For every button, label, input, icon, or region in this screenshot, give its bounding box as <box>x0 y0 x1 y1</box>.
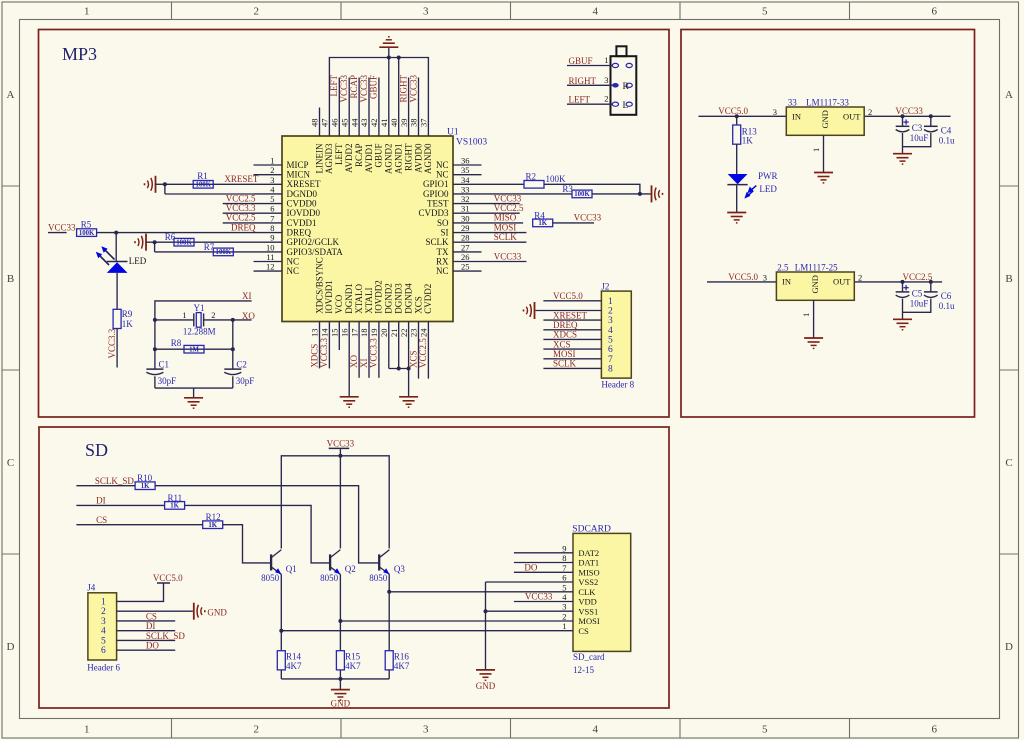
wire AGND rail <box>329 58 428 108</box>
IC U1 pin 31 CVDD3 <box>453 212 482 214</box>
svg-text:CS: CS <box>146 611 157 621</box>
wire DREQ to pin 8 <box>97 232 254 234</box>
svg-text:RX: RX <box>436 256 449 266</box>
svg-text:SO: SO <box>437 218 449 228</box>
junction C4 tap <box>929 114 933 118</box>
svg-text:45: 45 <box>339 119 349 128</box>
svg-text:7: 7 <box>562 563 566 573</box>
svg-text:SD: SD <box>85 440 108 460</box>
svg-text:C1: C1 <box>159 359 170 369</box>
wire emitter resistors to rail <box>280 670 282 679</box>
svg-text:38: 38 <box>409 119 419 128</box>
ground symbol C5/C6 <box>893 318 912 320</box>
ground symbol DGND2/3/4 <box>399 396 418 398</box>
svg-text:VCC33: VCC33 <box>339 75 349 103</box>
svg-text:1: 1 <box>84 6 90 18</box>
svg-text:17: 17 <box>349 329 359 338</box>
wire LED anode <box>115 233 117 262</box>
svg-text:VCC33: VCC33 <box>895 106 923 116</box>
ground symbol C3/C4 <box>893 153 912 155</box>
wire J2 pin 4 net DREQ <box>543 329 601 331</box>
wire net RIGHT on pin 39 <box>408 78 410 108</box>
svg-text:13: 13 <box>310 329 320 338</box>
wire VCC5.0 rail bottom <box>707 281 942 283</box>
svg-text:NC: NC <box>436 266 449 276</box>
junction LED node <box>114 231 118 235</box>
resistor R16 4K7 <box>385 651 393 670</box>
svg-text:16: 16 <box>339 329 349 338</box>
power port VCC5.0 at J4 <box>157 582 170 584</box>
IC U1 pin 4 DGND0 <box>254 193 283 195</box>
svg-text:2: 2 <box>254 6 260 18</box>
wire net VCC33 on pin 45 <box>348 78 350 108</box>
svg-text:40: 40 <box>389 119 399 128</box>
wire R12 to Q1 base <box>223 525 271 563</box>
svg-text:2: 2 <box>868 107 872 117</box>
svg-text:C2: C2 <box>236 359 247 369</box>
capacitor C2 30pF <box>224 368 241 370</box>
svg-text:1: 1 <box>811 148 821 152</box>
svg-text:GND: GND <box>476 681 496 691</box>
svg-text:C: C <box>7 457 14 469</box>
wire J4 pin 4 net DI <box>117 630 176 632</box>
resistor R13 1K <box>733 125 741 144</box>
svg-text:VCC2.5: VCC2.5 <box>418 338 428 368</box>
svg-text:19: 19 <box>369 329 379 338</box>
svg-text:XO: XO <box>242 311 255 321</box>
svg-text:OUT: OUT <box>843 112 861 122</box>
resistor R2 100K <box>524 181 544 189</box>
svg-text:2: 2 <box>254 724 260 736</box>
wire XI net <box>155 301 252 369</box>
wire Q2 emitter chain <box>339 574 341 650</box>
svg-text:CVDD3: CVDD3 <box>418 208 449 218</box>
wire J2 pin2 to ground <box>536 310 602 312</box>
svg-text:GPIO0: GPIO0 <box>423 189 449 199</box>
svg-text:AGND3: AGND3 <box>324 143 334 174</box>
IC U1 pin 44 RCAP <box>358 108 360 137</box>
svg-text:IOVDD2: IOVDD2 <box>374 280 384 314</box>
capacitor C4 0.1u <box>924 125 938 127</box>
wire SCLK_SD net <box>76 485 135 487</box>
svg-text:VCC5.0: VCC5.0 <box>718 106 748 116</box>
svg-text:VCC2.5: VCC2.5 <box>226 213 256 223</box>
svg-text:NC: NC <box>287 266 300 276</box>
wire pin41 to rail <box>388 58 390 108</box>
svg-text:28: 28 <box>461 233 470 243</box>
svg-text:L: L <box>623 101 629 111</box>
svg-text:SCLK_SD: SCLK_SD <box>146 631 186 641</box>
svg-text:XDCS/BSYNC: XDCS/BSYNC <box>314 257 324 314</box>
wire ground to R6 node <box>146 241 155 243</box>
svg-text:R12: R12 <box>206 512 221 522</box>
svg-text:XRESET: XRESET <box>224 174 259 184</box>
IC U1 pin 38 AVDD0 <box>418 108 420 137</box>
svg-text:36: 36 <box>461 156 470 166</box>
svg-text:MICP: MICP <box>287 160 309 170</box>
wire CS net <box>76 524 202 526</box>
connector J2 Header 8 body <box>601 291 631 378</box>
svg-text:A: A <box>1005 89 1013 101</box>
svg-text:2: 2 <box>608 307 613 317</box>
svg-text:CS: CS <box>578 626 589 636</box>
IC U1 pin 23 XCS <box>418 322 420 351</box>
svg-text:VDD: VDD <box>578 597 596 607</box>
capacitor C6 0.1u <box>924 291 938 293</box>
junction C6 tap <box>929 280 933 284</box>
svg-text:MISO: MISO <box>494 213 517 223</box>
svg-text:6: 6 <box>608 345 613 355</box>
svg-text:TX: TX <box>437 247 449 257</box>
svg-text:1: 1 <box>101 597 106 607</box>
svg-text:R8: R8 <box>171 338 182 348</box>
wire right rail <box>232 320 234 369</box>
wire Q3 emitter chain <box>388 574 390 650</box>
svg-text:35: 35 <box>461 165 470 175</box>
wire J2 pin 3 net XRESET <box>543 319 601 321</box>
svg-text:21: 21 <box>389 329 399 338</box>
resistor R9 1K <box>113 309 121 328</box>
svg-text:VCC2.5: VCC2.5 <box>903 272 933 282</box>
connector SDCARD pin 2 MOSI <box>340 620 573 622</box>
wire XO net pin17 <box>358 350 360 378</box>
wire R1 node down to DGND0 <box>164 184 166 194</box>
signal ground right <box>651 185 653 202</box>
svg-text:VCC5.0: VCC5.0 <box>153 573 183 583</box>
svg-text:2: 2 <box>604 94 608 104</box>
resistor R3 100K <box>572 190 592 198</box>
svg-text:R1: R1 <box>197 171 208 181</box>
svg-text:Header 6: Header 6 <box>87 663 120 673</box>
svg-text:3: 3 <box>562 602 566 612</box>
LED D1 <box>107 261 128 263</box>
svg-text:GND: GND <box>820 110 830 128</box>
svg-text:0.1u: 0.1u <box>939 136 955 146</box>
svg-text:2: 2 <box>858 272 862 282</box>
svg-text:5: 5 <box>608 335 613 345</box>
svg-text:SI: SI <box>440 228 448 238</box>
junction C3 tap <box>901 114 905 118</box>
svg-text:SCLK_SD: SCLK_SD <box>95 476 135 486</box>
svg-text:IOVDD1: IOVDD1 <box>324 280 334 314</box>
svg-text:DGND2: DGND2 <box>384 283 394 314</box>
svg-text:VCC33: VCC33 <box>494 251 522 261</box>
svg-text:VCC33: VCC33 <box>525 592 553 602</box>
LED PWR <box>728 174 748 184</box>
ground symbol DGND1 <box>340 396 359 398</box>
wire GPIO1 to R2 <box>482 183 525 185</box>
svg-text:Y1: Y1 <box>194 303 205 313</box>
IC U1 pin 45 AVDD2 <box>348 108 350 137</box>
svg-text:1K: 1K <box>122 319 134 329</box>
svg-text:4K7: 4K7 <box>286 661 302 671</box>
svg-text:4: 4 <box>593 6 599 18</box>
ground symbol SD transistors <box>331 689 350 691</box>
svg-text:25: 25 <box>461 262 470 272</box>
svg-text:5: 5 <box>101 636 106 646</box>
ground symbol under PWR LED <box>727 212 746 214</box>
svg-text:1: 1 <box>604 55 608 65</box>
resistor R8 1M <box>184 345 204 353</box>
svg-text:XRESET: XRESET <box>287 179 322 189</box>
svg-text:C5: C5 <box>912 289 923 299</box>
svg-text:5: 5 <box>762 6 768 18</box>
wire net LEFT on pin 46 <box>338 78 340 108</box>
wire net VCC33 on pin 43 <box>368 78 370 108</box>
audio jack connector body <box>611 56 637 115</box>
svg-text:18: 18 <box>359 329 369 338</box>
svg-text:5: 5 <box>270 194 274 204</box>
IC U1 pin 13 XDCS/BSYNC <box>319 322 321 351</box>
svg-text:1: 1 <box>801 313 811 317</box>
svg-text:NC: NC <box>436 170 449 180</box>
svg-text:B: B <box>1005 273 1012 285</box>
IC U1 pin 5 CVDD0 <box>254 203 283 205</box>
wire C5/C6 bottoms to ground <box>903 299 931 313</box>
svg-text:100K: 100K <box>574 191 590 198</box>
IC U1 pin 32 TEST <box>453 203 482 205</box>
wire collector rail <box>281 456 389 549</box>
svg-text:LM1117-25: LM1117-25 <box>795 263 838 273</box>
svg-text:DGND4: DGND4 <box>403 283 413 314</box>
junction Q3/CLK card <box>387 590 391 594</box>
wire C3 top <box>902 116 904 126</box>
wire J2 pin 8 net SCLK <box>543 367 601 369</box>
svg-text:SDCARD: SDCARD <box>572 525 611 535</box>
svg-text:47: 47 <box>320 119 330 128</box>
svg-text:10uF: 10uF <box>910 133 929 143</box>
svg-text:9: 9 <box>562 543 566 553</box>
svg-text:39: 39 <box>399 119 409 128</box>
svg-text:6: 6 <box>562 573 566 583</box>
svg-text:VCC3.3: VCC3.3 <box>319 337 329 367</box>
wire C3/C4 bottoms to ground <box>903 133 931 147</box>
wire net VCC3.3 pin 6 <box>223 212 254 214</box>
IC U1 pin 26 RX <box>453 261 482 263</box>
svg-text:CS: CS <box>96 515 107 525</box>
wire crystal bottom <box>155 387 233 389</box>
svg-text:30pF: 30pF <box>236 376 255 386</box>
wire C4 top <box>930 116 932 126</box>
svg-text:42: 42 <box>369 119 379 128</box>
IC U1 pin 42 GBUF <box>378 108 380 137</box>
wire pin40 to rail <box>398 58 400 108</box>
svg-text:GPIO1: GPIO1 <box>423 179 449 189</box>
wire to R7 pin10 <box>155 251 254 253</box>
svg-text:DGND0: DGND0 <box>287 189 318 199</box>
capacitor C3 10uF <box>896 125 910 127</box>
svg-text:B: B <box>7 273 14 285</box>
IC U1 pin 39 RIGHT <box>408 108 410 137</box>
svg-text:100K: 100K <box>176 239 192 246</box>
svg-text:LED: LED <box>129 256 147 266</box>
wire Q1 emitter chain <box>280 574 282 650</box>
wire DGND2/3/4 join <box>388 350 390 369</box>
svg-text:SCLK: SCLK <box>553 359 577 369</box>
junction DGND join <box>397 367 401 371</box>
wire node down to pin10 row <box>154 242 156 252</box>
svg-text:R6: R6 <box>165 232 176 242</box>
svg-text:48: 48 <box>310 119 320 128</box>
IC U1 pin 17 XTALO <box>358 322 360 351</box>
wire XRESET pin3 <box>165 183 254 185</box>
wire LED cathode to R9 <box>116 273 118 309</box>
svg-text:D: D <box>1005 641 1013 653</box>
svg-text:1: 1 <box>562 621 566 631</box>
jack pad 1 <box>612 63 618 67</box>
svg-text:IOVDD0: IOVDD0 <box>287 208 321 218</box>
svg-text:2: 2 <box>270 165 274 175</box>
wire VCC3.3 net pin19 <box>378 350 380 378</box>
svg-text:MOSI: MOSI <box>553 349 576 359</box>
svg-text:100K: 100K <box>546 174 567 184</box>
resistor R7 100K <box>213 248 233 256</box>
IC U1 pin 11 NC <box>254 261 283 263</box>
transistor Q3 8050 <box>378 554 380 570</box>
IC U1 pin 2 MICN <box>254 174 283 176</box>
IC U1 pin 34 GPIO1 <box>453 183 482 185</box>
wire J2 pin 1 net VCC5.0 <box>543 300 601 302</box>
svg-text:26: 26 <box>461 252 470 262</box>
svg-text:6: 6 <box>270 204 274 214</box>
svg-text:4: 4 <box>593 724 599 736</box>
wire net GBUF on pin 42 <box>378 78 380 108</box>
IC U1 pin 3 XRESET <box>254 183 283 185</box>
svg-text:31: 31 <box>461 204 470 214</box>
svg-text:0.1u: 0.1u <box>939 301 955 311</box>
svg-text:R9: R9 <box>122 309 133 319</box>
svg-text:LM1117-33: LM1117-33 <box>806 98 849 108</box>
svg-text:CVDD1: CVDD1 <box>287 218 317 228</box>
svg-text:IN: IN <box>782 277 791 287</box>
wire XCS net pin23 <box>418 350 420 379</box>
regulator U LM1117-33 body <box>786 107 864 135</box>
IC U1 pin 48 LINEIN <box>319 108 321 137</box>
svg-text:DGND1: DGND1 <box>344 283 354 314</box>
svg-text:AGND1: AGND1 <box>394 144 404 175</box>
IC U1 pin 37 AGND0 <box>427 108 429 137</box>
svg-text:DAT2: DAT2 <box>578 548 599 558</box>
svg-text:TEST: TEST <box>427 199 449 209</box>
wire net VCC33 pin 32 <box>482 203 520 205</box>
svg-text:2: 2 <box>101 607 106 617</box>
wire LEFT to jack pin2 <box>567 103 612 105</box>
svg-text:37: 37 <box>419 119 429 128</box>
wire J4 pin1 to VCC5.0 <box>117 583 164 601</box>
svg-text:9: 9 <box>270 233 274 243</box>
svg-text:22: 22 <box>399 329 409 338</box>
wire R13 top <box>736 116 738 125</box>
junction VCC33 rail <box>338 454 342 458</box>
svg-text:GBUF: GBUF <box>369 75 379 99</box>
wire R3 to ground <box>592 193 651 195</box>
svg-text:DGND3: DGND3 <box>394 283 404 314</box>
svg-text:XO: XO <box>349 355 359 368</box>
svg-text:DO: DO <box>146 641 159 651</box>
svg-text:DI: DI <box>96 496 106 506</box>
junction R8 right <box>231 347 235 351</box>
wire C6 top <box>930 282 932 292</box>
svg-text:DREQ: DREQ <box>231 222 256 232</box>
svg-text:J2: J2 <box>601 281 609 291</box>
IC U1 pin 24 CVDD2 <box>427 322 429 351</box>
svg-text:3: 3 <box>608 316 613 326</box>
wire net VCC33 on pin 38 <box>418 78 420 108</box>
svg-text:CVDD2: CVDD2 <box>423 284 433 314</box>
svg-text:34: 34 <box>461 175 470 185</box>
wire C5 top <box>902 282 904 292</box>
wire GPIO0 to R3 <box>482 193 573 195</box>
svg-text:R2: R2 <box>526 171 537 181</box>
wire R9 to VCC33 stub <box>116 329 118 368</box>
signal ground at J2 <box>534 302 536 319</box>
jack pad L <box>626 102 632 106</box>
svg-text:3: 3 <box>773 107 777 117</box>
svg-text:4K7: 4K7 <box>394 661 410 671</box>
svg-text:27: 27 <box>461 242 470 252</box>
svg-text:XRESET: XRESET <box>553 310 588 320</box>
svg-text:R7: R7 <box>204 242 215 252</box>
svg-text:DREQ: DREQ <box>553 320 578 330</box>
wire DGND1 to ground <box>348 350 350 397</box>
signal ground near R6 <box>145 234 147 251</box>
wire J2 pin 5 net XDCS <box>543 338 601 340</box>
svg-text:C4: C4 <box>941 125 952 135</box>
svg-text:SD_card: SD_card <box>573 652 605 662</box>
jack pad right top <box>626 63 632 67</box>
wire J2 pin 6 net XCS <box>543 348 601 350</box>
resistor R12 1K <box>203 521 223 529</box>
svg-text:VCC3.3: VCC3.3 <box>107 328 117 358</box>
svg-text:8050: 8050 <box>369 573 388 583</box>
svg-text:7: 7 <box>270 213 274 223</box>
svg-text:2: 2 <box>211 310 215 320</box>
wire ground rail SD <box>281 678 389 680</box>
svg-text:MP3: MP3 <box>62 44 97 64</box>
connector J4 Header 6 body <box>88 593 117 660</box>
wire DI net <box>76 504 164 506</box>
junction Q1/CS card <box>279 629 283 633</box>
wire VSS to ground <box>485 582 487 670</box>
wire ground to R1 node <box>156 183 165 185</box>
transistor Q2 8050 <box>329 554 331 570</box>
IC U1 pin 20 DGND2 <box>388 322 390 351</box>
svg-text:32: 32 <box>461 194 470 204</box>
regulator U LM1117-25 body <box>776 272 854 300</box>
wire GBUF to jack pin1 <box>567 65 612 67</box>
svg-text:C3: C3 <box>912 123 923 133</box>
svg-text:NC: NC <box>436 160 449 170</box>
IC U1 pin 1 MICP <box>254 164 283 166</box>
svg-text:100K: 100K <box>195 182 211 189</box>
svg-text:33: 33 <box>788 98 798 108</box>
wire net SCLK pin 28 <box>482 241 527 243</box>
connector SDCARD pin 5 CLK <box>389 591 573 593</box>
svg-text:1K: 1K <box>141 483 150 490</box>
wire VCC3.3 net pin14 <box>328 350 330 368</box>
IC U1 pin 10 GPIO3/SDATA <box>254 251 283 253</box>
IC U1 pin 33 GPIO0 <box>453 193 482 195</box>
wire VCC33 stem <box>339 448 341 455</box>
svg-text:VCC33: VCC33 <box>359 75 369 103</box>
svg-text:4K7: 4K7 <box>345 661 361 671</box>
svg-text:XI: XI <box>242 291 252 301</box>
svg-text:CVDD0: CVDD0 <box>287 199 318 209</box>
IC U1 pin 9 GPIO2/GCLK <box>254 241 283 243</box>
IC U1 pin 6 IOVDD0 <box>254 212 283 214</box>
svg-text:GBUF: GBUF <box>374 144 384 168</box>
junction at rail/pin40 <box>397 56 401 60</box>
